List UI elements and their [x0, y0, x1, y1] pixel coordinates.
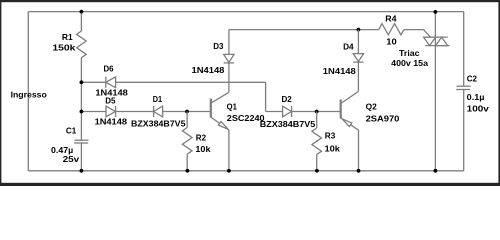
- triac cathode wire to bottom rail: [434, 46, 436, 171]
- wire from top rail to R1: [80, 12, 82, 31]
- capacitor C1: [75, 139, 89, 141]
- svg-text:1N4148: 1N4148: [95, 117, 128, 126]
- svg-text:D2: D2: [282, 95, 293, 104]
- triac anode wire: [434, 12, 436, 37]
- svg-text:BZX384B7V5: BZX384B7V5: [131, 120, 186, 129]
- resistor R2: [182, 128, 192, 155]
- wire top rail: [28, 11, 463, 13]
- svg-text:R1: R1: [62, 33, 73, 42]
- wire Q1 collector to D3: [228, 63, 230, 92]
- node bottom C1: [80, 169, 84, 173]
- wire D4 to Q2 collector: [357, 62, 359, 91]
- wire C1 to bottom rail: [80, 143, 82, 171]
- wire node down to D4: [357, 30, 359, 54]
- wire bottom rail: [28, 170, 463, 172]
- node top rail triac: [434, 10, 438, 14]
- svg-text:C2: C2: [467, 75, 478, 84]
- node bottom Q1 emitter: [227, 169, 231, 173]
- resistor R4: [379, 24, 404, 35]
- svg-text:100v: 100v: [467, 105, 490, 114]
- svg-text:10: 10: [386, 38, 397, 47]
- node R2 top junction: [185, 110, 189, 114]
- node R3 top junction: [315, 110, 319, 114]
- resistor R1: [77, 31, 87, 58]
- wire triac gate diagonal: [424, 30, 431, 38]
- svg-text:C1: C1: [66, 127, 77, 136]
- transistor Q1 emitter arrow: [218, 122, 228, 130]
- diode D3: [224, 54, 234, 62]
- svg-text:1N4148: 1N4148: [323, 67, 357, 76]
- wire node to D5: [81, 111, 106, 113]
- node bottom triac: [434, 169, 438, 173]
- svg-text:R3: R3: [325, 132, 336, 141]
- wire D3 corner to D4 node: [229, 29, 379, 31]
- wire junction to R3: [316, 112, 318, 129]
- svg-text:BZX384B7V5: BZX384B7V5: [260, 120, 316, 129]
- wire Q2 emitter to bottom rail: [358, 130, 360, 171]
- wire Q1 emitter to bottom rail: [228, 130, 230, 171]
- wire node to D6: [81, 81, 105, 83]
- wire right rail lower: [463, 90, 465, 171]
- svg-text:0.1µ: 0.1µ: [467, 93, 485, 102]
- svg-text:D6: D6: [104, 65, 114, 74]
- wire R2 to bottom rail: [186, 154, 188, 171]
- diode D2: [283, 106, 292, 117]
- svg-text:D4: D4: [343, 43, 354, 52]
- transistor Q1: [210, 99, 212, 118]
- node bottom R3: [315, 169, 319, 173]
- svg-text:Ingresso: Ingresso: [11, 91, 47, 100]
- node top rail R1: [80, 10, 84, 14]
- svg-text:D1: D1: [153, 95, 163, 104]
- diode D1: [153, 106, 155, 117]
- node bottom Q2 emitter: [357, 169, 361, 173]
- wire D3 up to corner: [228, 30, 230, 55]
- wire left rail (input): [27, 12, 29, 171]
- wire R3 to bottom rail: [316, 155, 318, 171]
- resistor R3: [312, 128, 322, 155]
- svg-text:Q1: Q1: [227, 102, 238, 111]
- transistor Q2: [340, 100, 342, 119]
- svg-text:10k: 10k: [195, 145, 211, 154]
- svg-text:R2: R2: [196, 133, 207, 142]
- svg-text:Triac: Triac: [399, 49, 420, 58]
- wire corner down to D2 row: [265, 82, 267, 111]
- wire D6 to corner: [116, 81, 266, 83]
- svg-text:10k: 10k: [325, 145, 341, 154]
- border frame: [0, 0, 500, 2]
- wire corner to D2: [266, 111, 283, 113]
- wire junction to R2: [186, 112, 188, 128]
- svg-text:2SA970: 2SA970: [366, 114, 400, 123]
- wire R4 to triac gate: [404, 29, 424, 31]
- triac symbol: [424, 36, 448, 38]
- node D6 branch: [80, 80, 84, 84]
- svg-text:Q2: Q2: [366, 102, 378, 111]
- svg-text:D3: D3: [213, 42, 224, 51]
- diode D5: [106, 106, 115, 117]
- wire R1 to C1: [80, 58, 82, 141]
- svg-text:D5: D5: [105, 96, 116, 105]
- capacitor C2: [457, 85, 471, 87]
- diode D4: [353, 54, 363, 62]
- wire right rail upper: [463, 12, 465, 87]
- node D5 branch: [80, 110, 84, 114]
- svg-text:400v 15a: 400v 15a: [391, 59, 428, 68]
- svg-text:0.47µ: 0.47µ: [51, 146, 73, 155]
- svg-text:R4: R4: [385, 15, 397, 24]
- transistor Q2 emitter arrow: [342, 119, 352, 127]
- node D4/R4 junction: [357, 28, 361, 32]
- svg-text:150k: 150k: [52, 43, 76, 52]
- svg-text:1N4148: 1N4148: [192, 66, 225, 75]
- wire D1 to Q1 base: [163, 111, 211, 113]
- node bottom R2: [186, 169, 190, 173]
- diode D6: [105, 77, 107, 88]
- wire D5 to D1: [116, 111, 154, 113]
- svg-text:25v: 25v: [63, 155, 80, 164]
- wire D2 to Q2 base: [292, 111, 341, 113]
